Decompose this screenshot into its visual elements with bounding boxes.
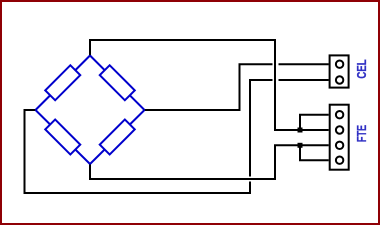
wire: FTE pin4 jumper from junction <box>300 145 329 160</box>
pin 4 circle <box>336 157 343 164</box>
wire: bridge side bottom-right <box>90 110 145 164</box>
wire: bridge bottom node to FTE pin 3 (net V-) <box>90 145 329 179</box>
pin 3 circle <box>336 142 343 149</box>
wire: bridge side top-right <box>90 56 145 111</box>
pin 1 circle <box>336 111 343 118</box>
connector CEL (2-pin header) <box>330 55 349 87</box>
wire: bridge left node to CEL pin 2 <box>25 110 251 193</box>
wire: CEL pin1 segment after crossover gap <box>279 63 329 65</box>
svg-text:FTE: FTE <box>356 124 370 142</box>
resistor R2 (bridge top-right) <box>100 65 135 100</box>
junction dot (FTE pins 3-4) <box>298 143 303 148</box>
connector FTE (4-pin header) <box>330 105 349 170</box>
wire: FTE pin1 jumper from junction <box>300 115 329 130</box>
junction dot (FTE pins 1-2) <box>298 128 303 133</box>
wire: bridge right node to CEL pin 1 <box>145 64 273 110</box>
pin 2 circle <box>336 126 343 133</box>
wire: bridge side top-left <box>36 56 91 111</box>
svg-text:CEL: CEL <box>356 59 370 78</box>
wire: CEL pin2 segment after crossover gap <box>279 79 329 81</box>
wire: bridge top node to FTE pins 1-2 feed (net V+) <box>90 40 329 130</box>
wire: bridge side bottom-left <box>36 110 91 164</box>
resistor R3 (bridge bottom-left) <box>45 119 80 154</box>
resistor R4 (bridge bottom-right) <box>100 119 135 154</box>
wire: vertical segment after crossover gap <box>250 80 273 177</box>
pin 1 circle <box>336 60 343 67</box>
resistor R1 (bridge top-left) <box>45 65 80 100</box>
pin 2 circle <box>336 76 343 83</box>
